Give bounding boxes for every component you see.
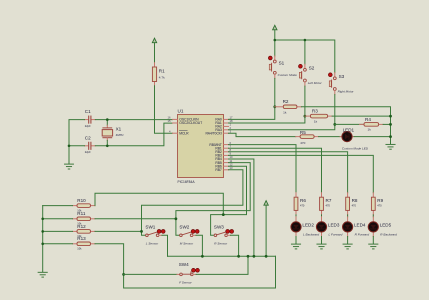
resistor R7 (320, 193, 332, 215)
ground LED5 (369, 244, 378, 249)
wire R2 to ground column (301, 107, 390, 144)
svg-text:L Sensor: L Sensor (146, 241, 159, 245)
node SW2 drop R11 (175, 217, 178, 220)
resistor R12 (73, 224, 96, 238)
wire R13 to SW4 and bottom rail (95, 244, 276, 288)
wire R9 to LED5 (372, 215, 374, 217)
node bus VCC (265, 255, 268, 258)
capacitor C2 (85, 136, 96, 155)
svg-text:R6: R6 (300, 198, 306, 203)
wire RA3 to S3/R4 junction (229, 124, 335, 129)
svg-text:470: 470 (300, 141, 305, 145)
wire RB7 to SW1 (142, 170, 243, 236)
svg-text:R5: R5 (300, 130, 306, 135)
svg-text:4MHz: 4MHz (116, 133, 125, 137)
svg-text:Left Motor: Left Motor (308, 81, 323, 85)
wire SW1 to bus (162, 235, 168, 256)
wire VCC middle to bus (265, 205, 267, 256)
ground left bus (38, 272, 47, 277)
wire R12 left (43, 230, 73, 232)
svg-text:R8: R8 (352, 198, 358, 203)
wire RB5 to SW2 (176, 163, 250, 236)
wire SW4 left (124, 273, 177, 275)
wire R1 to MCLR (155, 86, 173, 133)
svg-text:RA4/T0CKI: RA4/T0CKI (205, 131, 221, 135)
wire S1 to R2 row (274, 78, 276, 106)
crystal X1 (102, 120, 124, 146)
wire RA1 to S2/R3 junction (229, 116, 305, 123)
svg-text:PIC16F84A: PIC16F84A (178, 180, 196, 184)
resistor R11 (73, 211, 96, 225)
svg-text:LED2: LED2 (302, 222, 314, 227)
resistor R9 (371, 193, 383, 215)
svg-text:R10: R10 (77, 198, 86, 203)
wire VCC bus to switches (275, 30, 335, 73)
switch S2 (299, 64, 323, 86)
wire S2 to R3 row (304, 86, 306, 116)
svg-text:S2: S2 (309, 65, 315, 70)
wire R4 to ground column (383, 123, 390, 125)
switch SW1 (145, 224, 165, 245)
node bus SW4 (247, 255, 250, 258)
wire RA0 to S1/R2 junction (229, 107, 275, 120)
svg-text:Custom Mode LED: Custom Mode LED (342, 146, 369, 150)
ground LED3 (317, 244, 326, 249)
power arrow VCC top-left (152, 38, 156, 43)
svg-text:10k: 10k (77, 247, 82, 251)
node bus S1 (274, 39, 277, 42)
wire C2 to OSC2 (95, 123, 172, 146)
svg-text:R1: R1 (159, 69, 165, 74)
resistor R2 (275, 99, 302, 114)
node ground column R4 (389, 123, 392, 126)
wire LED3 to ground (321, 237, 323, 244)
svg-text:SW2: SW2 (179, 224, 189, 229)
svg-text:R9: R9 (377, 198, 383, 203)
ground LED2 (291, 244, 300, 249)
wire RB0 to R6 column (229, 145, 297, 193)
wire RB2 to R8 column (229, 152, 348, 193)
wire LED1 to ground column (354, 136, 391, 138)
svg-text:Custom Mode: Custom Mode (278, 73, 298, 77)
node C2 left junction (68, 145, 71, 148)
svg-text:OSC2/CLKOUT: OSC2/CLKOUT (179, 121, 202, 125)
svg-text:LED4: LED4 (354, 222, 366, 227)
svg-text:LED3: LED3 (328, 222, 340, 227)
node X1 bottom junction (106, 145, 109, 148)
wire LED2 to ground (295, 237, 297, 244)
wire RB3 to R9 column (229, 155, 374, 192)
svg-text:C2: C2 (85, 136, 91, 141)
svg-text:R11: R11 (77, 211, 86, 216)
node left bus R13 (41, 243, 44, 246)
wire R12 to SW1 drop (95, 230, 142, 232)
wire SW4 to bus (196, 256, 248, 274)
resistor R6 (294, 193, 306, 215)
LED LED5 (368, 217, 397, 237)
svg-text:R13: R13 (77, 236, 86, 241)
svg-text:S3: S3 (339, 74, 345, 79)
node R3 junction (304, 115, 307, 118)
wire RA4 to R5 (229, 133, 296, 136)
node SW1 drop R12 (140, 230, 143, 233)
U1 pin names (179, 118, 222, 172)
node bus S2 (304, 39, 307, 42)
wire R8 to LED4 (347, 215, 349, 217)
node SW4 left junction (122, 273, 125, 276)
node RB6 line R10 (222, 213, 225, 216)
switch S3 (328, 73, 354, 95)
svg-text:470: 470 (377, 204, 382, 208)
node bus SW3 (237, 255, 240, 258)
svg-text:F Sensor: F Sensor (179, 280, 192, 284)
svg-text:470: 470 (300, 204, 305, 208)
svg-text:U1: U1 (178, 109, 184, 114)
svg-text:LED1: LED1 (343, 127, 355, 132)
LED LED1 (340, 127, 369, 150)
svg-text:L Backward: L Backward (303, 233, 319, 237)
wire R10 left (43, 205, 73, 207)
LED LED4 (343, 217, 370, 237)
svg-text:SW1: SW1 (145, 224, 155, 229)
LED LED3 (316, 217, 342, 237)
wire left resistor bus to ground (42, 206, 44, 272)
svg-text:L Forward: L Forward (329, 233, 343, 237)
svg-text:R Forward: R Forward (355, 233, 370, 237)
wire R10 to RB6 line junction (95, 193, 223, 214)
wire S2 top drop (304, 40, 306, 64)
svg-text:RB7: RB7 (215, 168, 222, 172)
resistor R5 (296, 130, 319, 145)
svg-text:R2: R2 (283, 99, 289, 104)
node left bus R11 (41, 218, 44, 221)
wire RB6 to SW3 (211, 166, 247, 235)
power arrow VCC top-right (273, 25, 277, 30)
svg-text:X1: X1 (116, 127, 122, 132)
node X1 top junction (106, 118, 109, 121)
svg-text:16: 16 (168, 116, 171, 120)
U1 left pin stubs (173, 119, 178, 133)
svg-text:S1: S1 (279, 60, 285, 65)
svg-text:LED5: LED5 (380, 222, 392, 227)
node ground column R3 (389, 115, 392, 118)
svg-text:470: 470 (326, 204, 331, 208)
wire S1 top drop (274, 40, 276, 56)
resistor R4 (335, 117, 383, 132)
switch SW2 (179, 224, 199, 245)
svg-text:R Sensor: R Sensor (214, 241, 228, 245)
wire LED4 to ground (347, 237, 349, 244)
svg-text:1k: 1k (314, 120, 318, 124)
wire SW3 to bus (231, 235, 239, 256)
wire VCC arrow to R1 (154, 43, 156, 63)
LED LED2 (291, 217, 319, 237)
wire RB1 to R7 column (229, 148, 322, 193)
wire R13 left (43, 243, 73, 245)
wire R7 to LED3 (321, 215, 323, 217)
svg-text:4.7k: 4.7k (159, 76, 165, 80)
svg-text:15: 15 (168, 119, 171, 123)
op-amp U1 PIC16F84A body (178, 109, 224, 184)
switch S1 (268, 56, 297, 78)
wire S3 to R4 row (334, 95, 336, 125)
svg-text:Right Motor: Right Motor (338, 90, 355, 94)
node bus SW2 (201, 255, 204, 258)
svg-text:1k: 1k (283, 111, 287, 115)
svg-text:22pF: 22pF (85, 124, 91, 128)
wire SW2 to bus (196, 235, 202, 256)
ground LED4 (343, 244, 352, 249)
svg-text:M Sensor: M Sensor (180, 241, 194, 245)
wire LED5 to ground (372, 237, 374, 244)
capacitor C1 (85, 109, 96, 128)
resistor R3 (305, 108, 332, 123)
node ground column LED1 (389, 135, 392, 138)
wire bottom bus (168, 255, 276, 257)
node R4 junction (333, 123, 336, 126)
svg-text:R3: R3 (312, 108, 318, 113)
svg-text:MCLR: MCLR (179, 131, 189, 135)
svg-text:R12: R12 (77, 224, 86, 229)
svg-text:22pF: 22pF (85, 150, 91, 154)
wire C1 to OSC1 (95, 119, 172, 121)
U1 pin numbers (168, 116, 233, 170)
wire R5 to LED1 (319, 136, 341, 138)
ground right column (386, 144, 395, 149)
resistor R1 (152, 63, 165, 86)
node R2 junction (273, 105, 276, 108)
svg-text:470: 470 (352, 204, 357, 208)
wire R11 left (43, 218, 73, 220)
wire R6 to LED2 (295, 215, 297, 217)
node left bus R12 (41, 230, 44, 233)
wire left of C1 C2 to ground (69, 120, 85, 164)
svg-text:SW3: SW3 (214, 224, 224, 229)
U1 right pin stubs (224, 119, 229, 169)
switch SW4 (177, 262, 199, 284)
switch SW3 (214, 224, 234, 245)
svg-text:1k: 1k (368, 128, 372, 132)
wire RB4 to bottom bus (229, 159, 254, 256)
resistor R8 (346, 193, 358, 215)
svg-text:R Backward: R Backward (380, 233, 397, 237)
resistor R10 (73, 198, 96, 212)
power arrow VCC middle (264, 201, 268, 206)
svg-text:R7: R7 (326, 198, 332, 203)
svg-text:SW4: SW4 (179, 262, 189, 267)
resistor R13 (73, 236, 96, 250)
node bus RB4 (253, 255, 256, 258)
ground left (65, 164, 74, 169)
svg-text:C1: C1 (85, 109, 91, 114)
wire R11 to SW2 drop (95, 218, 176, 220)
wire R3 to ground column (332, 115, 390, 117)
svg-text:R4: R4 (365, 117, 371, 122)
